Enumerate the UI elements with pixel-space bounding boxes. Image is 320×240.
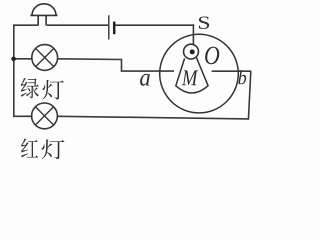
wire: red lamp to bottom-right corner	[57, 116, 248, 119]
red lamp symbol	[32, 103, 58, 129]
wire: bell to battery	[47, 24, 108, 26]
pivot center dot	[190, 49, 195, 54]
pivot small circle	[184, 44, 199, 59]
label 绿 (green)	[21, 78, 39, 99]
label O (pivot)	[205, 47, 219, 65]
wire: left vertical bus	[13, 24, 15, 117]
switch label S	[199, 17, 209, 29]
motor housing circle	[160, 34, 239, 113]
junction dot on left bus	[11, 57, 16, 62]
label 灯 (lamp, red row)	[42, 140, 65, 160]
label 灯 (lamp, green row)	[42, 80, 63, 100]
label b (contact b)	[238, 70, 246, 84]
wire: vertical drop from S corner to pivot	[192, 24, 194, 44]
wire: contact b to right corner	[212, 70, 252, 72]
label 红 (red)	[21, 139, 38, 158]
pendulum weight hanging from pivot	[176, 58, 208, 93]
wire: red-lamp row left segment	[14, 115, 32, 117]
electric bell (dome, base, legs)	[30, 4, 57, 26]
wire: right vertical bus	[248, 71, 250, 120]
battery cell (long plate + short thick plate)	[109, 15, 114, 39]
wire: top-left horizontal to bell	[14, 24, 38, 26]
wire: green lamp to step and contact a	[58, 59, 174, 71]
label a (contact a)	[140, 74, 150, 86]
wire: green-lamp row left segment	[14, 58, 32, 60]
label M (motor weight)	[182, 70, 199, 85]
wire: battery to switch corner	[115, 24, 194, 26]
green lamp symbol	[32, 45, 58, 71]
